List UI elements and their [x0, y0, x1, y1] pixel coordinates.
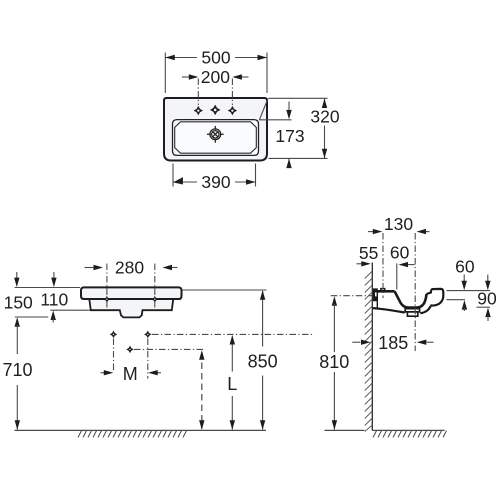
svg-text:110: 110 [40, 289, 68, 309]
svg-text:90: 90 [477, 289, 497, 309]
waste height top arrow [199, 350, 204, 360]
dimension 110: top arrow [53, 272, 55, 280]
dimension 810: dimension line [333, 304, 335, 430]
lip underside reference line (right) [447, 299, 466, 301]
tap hole right [228, 106, 237, 115]
dimension 500: extension line left [164, 53, 166, 94]
svg-text:810: 810 [319, 352, 349, 372]
supply hole left symbol [110, 331, 117, 338]
dimension M: arrows [101, 372, 106, 374]
svg-text:320: 320 [310, 106, 339, 126]
dimension 500: extension line right [266, 53, 268, 94]
tap deck (side) [377, 290, 394, 293]
dimension 850: dimension line [262, 291, 264, 430]
dimension 850: top arrow [260, 290, 265, 300]
bowl edge reference line (60) [396, 263, 398, 289]
dimension 173: arrows [288, 102, 290, 110]
fixing hole left (front) [103, 296, 110, 303]
waste pipe (side) [407, 312, 417, 316]
dimension 320: bottom reference line [269, 157, 328, 159]
dimension 60 (rim drop): bottom arrow [462, 300, 467, 310]
dimension 810: top arrow [332, 296, 337, 306]
waste height bottom arrow [199, 420, 204, 430]
supply holes centreline horizontal [152, 333, 313, 335]
svg-text:185: 185 [378, 333, 408, 353]
front rim lip (side) [427, 289, 444, 306]
basin back edge at wall (side) [376, 291, 378, 308]
dimension 110: bottom arrow [51, 311, 56, 321]
dimension 810: bottom arrow [332, 420, 337, 430]
floor hatching (front view) [78, 431, 187, 438]
waste flange (side) [405, 309, 419, 312]
svg-text:60: 60 [390, 243, 410, 263]
dimension 150/710 shared arrow [15, 317, 20, 327]
outer shell bottom (side) [373, 308, 405, 312]
floor line (side view, left of wall) [325, 429, 365, 431]
rim top extension line (left side) [15, 287, 80, 289]
fixing hole right (front) [151, 296, 158, 303]
basin outer rim (plan) [164, 98, 267, 161]
svg-text:L: L [227, 374, 237, 394]
svg-text:850: 850 [248, 351, 278, 371]
dimension 110: bottom reference line [50, 309, 90, 311]
basin bowl inner edge (plan, chamfered) [175, 122, 257, 153]
floor hatching (side view) [373, 431, 447, 438]
waste axis centreline (side) [414, 233, 416, 351]
dimension 280: arrows [85, 267, 96, 269]
fixing axis line (to 810) [331, 295, 372, 297]
dimension 60 (rim drop): top arrow [463, 275, 465, 283]
dimension 390: extension line left [172, 164, 174, 187]
waste outlet symbol (plan) [207, 126, 224, 143]
floor line (side view, right of wall) [372, 429, 444, 431]
basin body (front) [89, 297, 174, 317]
basin bowl outer edge (plan) [173, 120, 259, 156]
tap hole left [194, 106, 203, 115]
svg-text:390: 390 [201, 172, 230, 192]
fixing bracket (side) [373, 288, 378, 301]
dimension 850: bottom arrow [260, 420, 265, 430]
dimension 185: arrows [352, 341, 360, 343]
dimension 90: top arrow [487, 275, 489, 283]
svg-text:60: 60 [455, 257, 475, 277]
supply hole right symbol [144, 331, 151, 338]
tap hole centre [210, 105, 221, 116]
apron bottom reference line (right) [477, 306, 491, 308]
dimension 710: bottom arrow [15, 420, 20, 430]
dimension 390: dimension line [173, 181, 256, 183]
dimension L: dimension line [231, 337, 233, 430]
tap axis centreline right [231, 79, 233, 106]
waste outlet symbol (front) [126, 346, 133, 353]
dimension 90: bottom arrow [485, 308, 490, 318]
dimension 320: top reference line [269, 97, 328, 99]
wall face line [371, 263, 373, 431]
svg-text:500: 500 [201, 48, 230, 68]
svg-text:280: 280 [115, 257, 144, 277]
fixing hole centreline right [154, 264, 156, 310]
tap hole boss (side) [381, 289, 385, 291]
svg-text:130: 130 [384, 214, 413, 234]
dimension 710: dimension line [16, 325, 18, 430]
dimension 150: bottom reference line [15, 316, 49, 318]
dimension 320: dimension line [324, 99, 326, 159]
svg-text:55: 55 [359, 243, 378, 263]
dimension L: bottom arrow [230, 420, 235, 430]
waste centreline horizontal [134, 348, 206, 350]
dimension 55: arrow [357, 263, 363, 265]
rim top reference line (right) [447, 290, 491, 292]
wall hatching [365, 271, 373, 432]
floor line (front view) [15, 429, 267, 431]
dimension 130: arrows [368, 231, 375, 233]
dimension 200: arrows [182, 76, 197, 78]
svg-text:150: 150 [4, 293, 33, 313]
dimension 500: dimension line [165, 57, 267, 59]
rim top extension line (right side, to 850) [183, 289, 267, 291]
tap axis centreline (side) [382, 233, 384, 298]
fixing hole centreline left [106, 264, 108, 310]
outer shell bottom right (side) [420, 306, 430, 313]
rim bottom edge line [82, 298, 182, 300]
dimension 390: extension line right [255, 164, 257, 187]
dimension 150: top arrow [16, 272, 18, 280]
svg-text:173: 173 [275, 126, 304, 146]
basin rim slab (front) [81, 287, 182, 299]
dimension L: top arrow [230, 335, 235, 345]
dimension 173: top reference line [259, 119, 292, 121]
waste height dashed dimension line [201, 352, 203, 429]
bowl section (side) [395, 291, 427, 307]
svg-text:M: M [123, 364, 138, 384]
supply hole centreline vertical left [113, 339, 115, 372]
svg-text:710: 710 [2, 360, 32, 380]
svg-text:200: 200 [201, 67, 230, 87]
dimension 60 (tap offset): arrow [407, 264, 415, 266]
tap axis centreline left [197, 79, 199, 106]
supply hole centreline vertical right [147, 339, 149, 379]
deck corner leader (diagonal to rim corner) [260, 99, 269, 120]
